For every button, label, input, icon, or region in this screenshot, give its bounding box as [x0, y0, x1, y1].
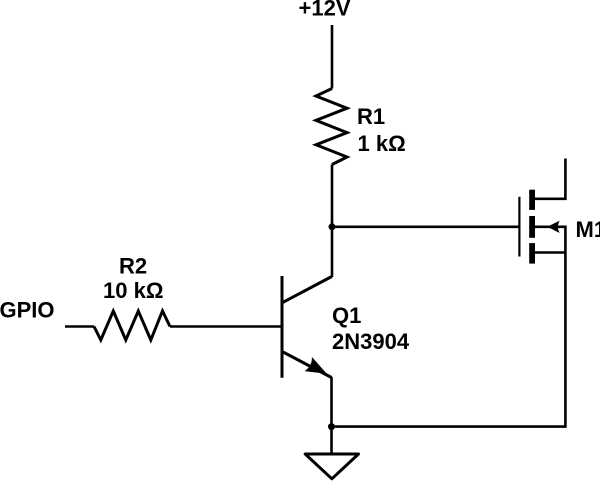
svg-text:R1: R1 [357, 104, 385, 129]
svg-text:M1: M1 [576, 217, 600, 242]
svg-text:10 kΩ: 10 kΩ [103, 278, 163, 303]
svg-text:+12V: +12V [299, 0, 351, 20]
svg-text:Q1: Q1 [332, 303, 361, 328]
svg-text:R2: R2 [119, 254, 147, 279]
svg-text:2N3904: 2N3904 [332, 329, 410, 354]
svg-text:1 kΩ: 1 kΩ [358, 131, 406, 156]
svg-text:GPIO: GPIO [0, 298, 55, 323]
